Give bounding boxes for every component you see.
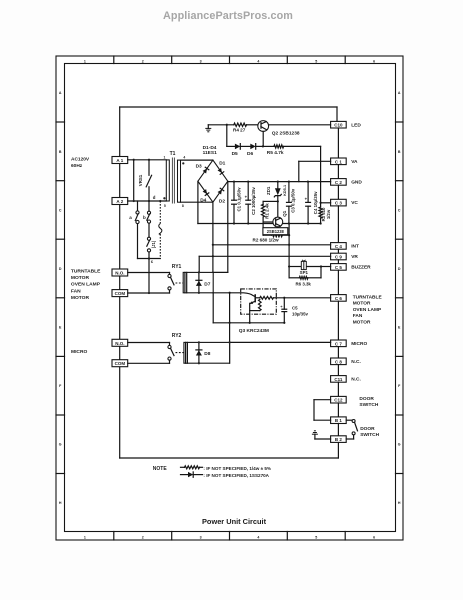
svg-text:C10: C10 bbox=[334, 123, 343, 128]
svg-text:COM: COM bbox=[115, 291, 126, 296]
svg-text:C3 0.1µ/50v: C3 0.1µ/50v bbox=[291, 188, 296, 213]
svg-text:FAN: FAN bbox=[71, 288, 81, 294]
svg-text:B 2: B 2 bbox=[335, 437, 343, 442]
svg-text:B: B bbox=[398, 150, 401, 154]
svg-text:Q3 KRC243M: Q3 KRC243M bbox=[239, 328, 269, 334]
svg-text:SP1: SP1 bbox=[300, 270, 309, 275]
svg-text:: IF NOT SPECIFIED, 1/4w ± 5%: : IF NOT SPECIFIED, 1/4w ± 5% bbox=[203, 466, 271, 471]
svg-text:D7: D7 bbox=[204, 281, 210, 287]
svg-text:R5 4.7k: R5 4.7k bbox=[267, 150, 284, 156]
svg-text:R6 3.3k: R6 3.3k bbox=[296, 282, 312, 287]
svg-text:ZD1: ZD1 bbox=[266, 186, 271, 195]
svg-text:: IF NOT SPECIFIED, 1SS270A: : IF NOT SPECIFIED, 1SS270A bbox=[203, 473, 269, 478]
svg-text:1: 1 bbox=[84, 59, 86, 63]
svg-text:SWITCH: SWITCH bbox=[359, 402, 378, 408]
svg-text:1: 1 bbox=[164, 155, 166, 159]
svg-text:D6: D6 bbox=[247, 151, 253, 157]
svg-text:T1: T1 bbox=[170, 151, 176, 157]
svg-text:C5: C5 bbox=[292, 306, 298, 311]
svg-text:COM: COM bbox=[115, 361, 126, 366]
svg-text:C 4: C 4 bbox=[335, 244, 343, 249]
svg-text:Power Unit Circuit: Power Unit Circuit bbox=[202, 517, 267, 526]
svg-text:3: 3 bbox=[200, 59, 202, 63]
svg-text:D8: D8 bbox=[204, 351, 210, 357]
svg-text:TURNTABLE: TURNTABLE bbox=[353, 295, 383, 301]
svg-text:MOTOR: MOTOR bbox=[353, 301, 371, 307]
svg-text:C 6: C 6 bbox=[335, 296, 343, 301]
svg-text:D5: D5 bbox=[232, 151, 238, 157]
svg-text:G: G bbox=[59, 443, 62, 447]
svg-text:B 1: B 1 bbox=[335, 418, 343, 423]
svg-text:NOTE: NOTE bbox=[153, 466, 168, 472]
svg-text:C12: C12 bbox=[334, 398, 343, 403]
svg-text:6: 6 bbox=[373, 535, 375, 539]
svg-text:DOOR: DOOR bbox=[359, 396, 374, 402]
svg-text:LED: LED bbox=[351, 122, 361, 128]
svg-text:OVEN LAMP: OVEN LAMP bbox=[353, 307, 382, 313]
svg-text:A: A bbox=[59, 91, 62, 95]
svg-text:SWITCH: SWITCH bbox=[360, 432, 379, 438]
svg-text:D1: D1 bbox=[219, 160, 225, 166]
svg-text:R4 27: R4 27 bbox=[233, 128, 246, 133]
svg-text:A 2: A 2 bbox=[116, 199, 123, 204]
svg-text:4: 4 bbox=[183, 155, 185, 159]
svg-text:GND: GND bbox=[351, 179, 362, 185]
svg-text:C: C bbox=[398, 208, 401, 212]
svg-text:Q1: Q1 bbox=[282, 210, 287, 216]
svg-text:Q2 2SB1238: Q2 2SB1238 bbox=[272, 131, 300, 137]
svg-text:b: b bbox=[143, 215, 146, 220]
svg-text:C 9: C 9 bbox=[335, 254, 343, 259]
svg-text:60Hz: 60Hz bbox=[71, 163, 83, 169]
svg-text:N.C.: N.C. bbox=[351, 359, 361, 365]
svg-text:VA: VA bbox=[351, 159, 358, 165]
svg-text:C 5: C 5 bbox=[335, 265, 343, 270]
svg-text:DOOR: DOOR bbox=[360, 426, 375, 432]
svg-text:(J1): (J1) bbox=[151, 240, 156, 248]
svg-text:C2 1000µ/35v: C2 1000µ/35v bbox=[251, 187, 256, 215]
svg-text:6: 6 bbox=[373, 59, 375, 63]
svg-text:d: d bbox=[153, 195, 156, 200]
svg-text:H: H bbox=[59, 501, 62, 505]
svg-text:MOTOR: MOTOR bbox=[71, 295, 90, 301]
svg-text:C 1: C 1 bbox=[335, 159, 343, 164]
svg-text:MOTOR: MOTOR bbox=[71, 275, 90, 281]
svg-text:1: 1 bbox=[84, 535, 86, 539]
svg-text:11ES1: 11ES1 bbox=[203, 150, 217, 156]
svg-text:5: 5 bbox=[164, 204, 166, 208]
svg-text:3: 3 bbox=[200, 535, 202, 539]
svg-text:FAN: FAN bbox=[353, 313, 363, 319]
svg-text:RY1: RY1 bbox=[172, 264, 182, 270]
svg-text:D2: D2 bbox=[219, 198, 225, 204]
svg-text:C: C bbox=[59, 208, 62, 212]
svg-text:2SB1238: 2SB1238 bbox=[267, 229, 285, 234]
svg-text:2: 2 bbox=[142, 59, 144, 63]
svg-text:G: G bbox=[398, 443, 401, 447]
svg-text:VC: VC bbox=[351, 200, 358, 206]
svg-text:2: 2 bbox=[142, 535, 144, 539]
svg-text:VR: VR bbox=[351, 254, 358, 260]
svg-text:AC120V: AC120V bbox=[71, 157, 90, 163]
svg-text:N.O.: N.O. bbox=[115, 341, 124, 346]
svg-text:R2 680 1/2w: R2 680 1/2w bbox=[253, 237, 279, 242]
svg-text:H: H bbox=[398, 501, 401, 505]
svg-text:C 8: C 8 bbox=[335, 359, 343, 364]
svg-text:C11: C11 bbox=[334, 377, 343, 382]
svg-text:D1-D4: D1-D4 bbox=[203, 145, 217, 151]
svg-text:N.C.: N.C. bbox=[351, 376, 361, 382]
svg-text:OVEN LAMP: OVEN LAMP bbox=[71, 282, 101, 288]
svg-text:C 3: C 3 bbox=[335, 201, 343, 206]
svg-text:VRS1: VRS1 bbox=[138, 174, 143, 186]
svg-text:1/2w: 1/2w bbox=[326, 209, 331, 219]
svg-text:A 1: A 1 bbox=[116, 158, 123, 163]
svg-text:5: 5 bbox=[315, 535, 317, 539]
svg-text:D: D bbox=[59, 267, 62, 271]
svg-text:MICRO: MICRO bbox=[71, 349, 87, 355]
svg-text:C 2: C 2 bbox=[335, 180, 343, 185]
svg-text:4: 4 bbox=[257, 59, 259, 63]
svg-text:RY2: RY2 bbox=[172, 333, 182, 339]
svg-text:10µ/35v: 10µ/35v bbox=[292, 311, 309, 316]
svg-text:R1 2.4k: R1 2.4k bbox=[265, 203, 270, 219]
svg-text:B: B bbox=[59, 150, 62, 154]
svg-text:4: 4 bbox=[257, 535, 259, 539]
svg-text:AppliancePartsPros.com: AppliancePartsPros.com bbox=[163, 10, 293, 22]
svg-text:BUZZER: BUZZER bbox=[351, 264, 371, 270]
svg-text:MICRO: MICRO bbox=[351, 341, 367, 347]
svg-text:8: 8 bbox=[182, 204, 184, 208]
svg-text:N.O.: N.O. bbox=[115, 271, 124, 276]
svg-text:D4: D4 bbox=[200, 197, 206, 203]
svg-text:C1 0.1µ/50v: C1 0.1µ/50v bbox=[237, 187, 242, 212]
svg-text:INT: INT bbox=[351, 243, 359, 249]
svg-text:TURNTABLE: TURNTABLE bbox=[71, 269, 101, 275]
svg-text:KD5-1: KD5-1 bbox=[283, 185, 287, 196]
svg-text:D: D bbox=[398, 267, 401, 271]
svg-text:A: A bbox=[398, 91, 401, 95]
svg-text:5: 5 bbox=[315, 59, 317, 63]
svg-text:C 7: C 7 bbox=[335, 341, 343, 346]
svg-text:MOTOR: MOTOR bbox=[353, 319, 371, 325]
svg-text:D3: D3 bbox=[196, 163, 202, 169]
svg-text:C4 10µ/35v: C4 10µ/35v bbox=[313, 191, 318, 214]
